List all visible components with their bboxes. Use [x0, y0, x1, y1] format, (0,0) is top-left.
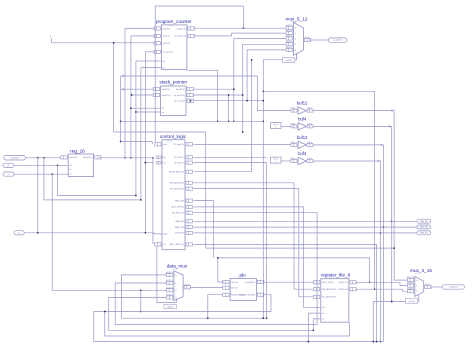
svg-text:o(11:0): o(11:0): [307, 142, 312, 144]
svg-text:FLAGS_OUT(3:0): FLAGS_OUT(3:0): [239, 294, 255, 297]
svg-text:o(15:0): o(15:0): [184, 284, 190, 286]
wire vertical 205 down: [205, 132, 207, 248]
wire extra vertical 228: [228, 94, 230, 122]
svg-text:clk: clk: [7, 165, 9, 167]
wire loop 91 run: [263, 91, 375, 290]
svg-text:o(11:0): o(11:0): [307, 158, 312, 160]
wire regfile rd0 to mux_3_16: [355, 282, 407, 285]
svg-text:RAM_EN: RAM_EN: [175, 220, 184, 223]
wire sp clk row: [130, 107, 161, 109]
wire alu flags in from bottom: [208, 295, 223, 319]
wire buf12a vertical to mux_3_16: [394, 111, 407, 281]
buffer U10 buf12: [291, 101, 313, 115]
junction clk: [57, 164, 59, 166]
control block U3 control_logic: [155, 134, 193, 250]
ALU block U6 alu: [223, 273, 264, 301]
input port i_data_bus(15:0): [4, 156, 26, 160]
wire sp inc row: [190, 100, 264, 102]
svg-text:RD1(15:0): RD1(15:0): [338, 289, 348, 291]
wire sp long bottom: [121, 120, 264, 122]
svg-text:reg_16: reg_16: [70, 148, 85, 153]
svg-text:din(15:0): din(15:0): [69, 157, 77, 159]
buffer U13 buf4: [291, 151, 313, 165]
instance label reg_16: [74, 153, 79, 155]
svg-text:XLXI_5: XLXI_5: [172, 269, 177, 271]
svg-text:mux_5_12: mux_5_12: [286, 17, 308, 22]
wire sp din row: [121, 88, 154, 90]
svg-text:XLXI_2: XLXI_2: [168, 85, 173, 87]
wire bottom bus 5: [94, 341, 384, 343]
wire data_mux d3 feed: [109, 298, 167, 331]
wire to program_counter rst: [140, 68, 142, 201]
register block U2 stack_pointer: [153, 80, 193, 116]
wire sp dout to mux a2: [193, 39, 286, 123]
buffer U11 buf4: [291, 116, 313, 130]
svg-text:clk: clk: [322, 307, 324, 309]
wire pc sp_out to mux a1: [193, 33, 285, 36]
svg-text:d3(15:0): d3(15:0): [166, 295, 173, 297]
instance label stack_pointer: [168, 85, 173, 87]
svg-text:off(11:0): off(11:0): [163, 43, 171, 45]
wire data_mux sel feed: [157, 246, 177, 302]
svg-text:a2(11:0): a2(11:0): [286, 36, 293, 38]
wire control rst row: [145, 162, 154, 164]
wire data_mux d1 feed: [115, 283, 166, 325]
instance label control_logic: [167, 141, 172, 143]
output port o_ram_en: [417, 219, 431, 223]
svg-text:i(11:0): i(11:0): [291, 142, 296, 144]
wire bottom bus 3: [109, 329, 314, 331]
svg-text:flags: flags: [163, 234, 167, 236]
svg-text:RD0(15:0): RD0(15:0): [338, 282, 348, 284]
svg-text:sp_inc(11:0): sp_inc(11:0): [174, 101, 185, 103]
wire buf4a vertical to mux_3 sel: [391, 126, 393, 301]
constant source XLXI_pwr2: [271, 157, 291, 163]
svg-text:RAM_WR: RAM_WR: [175, 226, 184, 229]
svg-text:dout(11:0): dout(11:0): [176, 88, 185, 91]
svg-text:o(15:0): o(15:0): [425, 284, 431, 286]
svg-text:DB_SEL(2:0): DB_SEL(2:0): [172, 213, 184, 215]
wire bottom bus 1: [121, 317, 266, 319]
wire buf4b out: [313, 160, 380, 162]
wire mid run 132: [114, 131, 206, 133]
wire mux_3 sel route: [373, 299, 419, 342]
svg-text:o(11:0): o(11:0): [307, 123, 312, 125]
wire sp inc to mux a4: [247, 50, 286, 101]
svg-text:program_counter: program_counter: [156, 19, 192, 24]
wire regfile en feed: [308, 313, 321, 342]
wire bottom bus 2: [115, 324, 317, 326]
svg-text:i(11:0): i(11:0): [291, 123, 296, 125]
wire regfile rst feed: [312, 319, 320, 331]
wire buf4a out: [313, 125, 392, 127]
wire addr_sel to mux sel: [194, 59, 253, 172]
junction rst: [51, 173, 53, 175]
svg-text:XLXI_9: XLXI_9: [415, 273, 420, 275]
svg-text:XLXI_6: XLXI_6: [238, 277, 243, 279]
wire rd_addr to regfile: [194, 189, 314, 297]
wire buf12a out: [313, 109, 394, 111]
svg-text:ALU_OP(3:0): ALU_OP(3:0): [172, 206, 184, 209]
multiplexer U5 data_mux: [164, 264, 191, 309]
svg-text:XLXI_3: XLXI_3: [167, 141, 172, 143]
svg-text:clk: clk: [163, 61, 165, 63]
svg-text:o_adr(11:0): o_adr(11:0): [333, 40, 343, 42]
buffer U12 buf12: [291, 135, 313, 149]
svg-text:sel(1:0): sel(1:0): [167, 307, 174, 309]
wire bottom bus 4: [105, 323, 350, 336]
wire pc rst row: [141, 67, 162, 69]
sel label overlay mux_3_16: [405, 299, 417, 303]
svg-text:instr: instr: [163, 143, 167, 146]
svg-text:RAM_EN: RAM_EN: [420, 220, 428, 223]
svg-text:RD_ADDR(2:0): RD_ADDR(2:0): [170, 187, 184, 190]
svg-text:a4(11:0): a4(11:0): [286, 47, 293, 49]
wire reg_wr to alu loop: [194, 201, 214, 258]
svg-text:stack_pointer: stack_pointer: [159, 80, 187, 85]
svg-text:a(15:0): a(15:0): [231, 282, 238, 284]
svg-text:clk: clk: [163, 157, 165, 159]
wire vertical from sp bottom net: [120, 76, 122, 142]
svg-text:ADDR_SEL(2:0): ADDR_SEL(2:0): [169, 171, 184, 174]
svg-text:ROM_EN: ROM_EN: [420, 232, 428, 234]
svg-text:o(11:0): o(11:0): [307, 108, 312, 110]
svg-text:buf12: buf12: [297, 101, 308, 106]
wire to program_counter clk: [135, 61, 137, 196]
svg-text:sel(2:0): sel(2:0): [285, 60, 292, 62]
svg-text:en: en: [69, 169, 71, 171]
wire flags port to control_logic: [24, 233, 162, 234]
wire pc_ld row: [194, 156, 267, 158]
svg-text:data_mux: data_mux: [167, 264, 188, 269]
svg-text:WR_D(15:0): WR_D(15:0): [322, 282, 333, 284]
wire faint vertical 113: [113, 42, 115, 132]
svg-text:en: en: [322, 313, 324, 315]
svg-text:SP_ld(1:0): SP_ld(1:0): [174, 162, 184, 164]
wire next_sel bottom: [194, 244, 377, 341]
svg-text:o_dat(15:0): o_dat(15:0): [449, 286, 459, 289]
constant source XLXI_pwr1: [271, 123, 291, 129]
svg-text:pwr_4: pwr_4: [274, 124, 278, 126]
svg-text:d2(15:0): d2(15:0): [166, 287, 173, 289]
wire mux_5_12 output to o_address: [309, 39, 329, 41]
wire mux_3_16 out to port: [430, 286, 442, 288]
wire pc op row: [145, 51, 154, 53]
wire pc clk row: [136, 60, 162, 62]
svg-text:PC_op(2:0): PC_op(2:0): [163, 52, 174, 54]
flip-flop block U1 program_counter: [154, 19, 194, 69]
output port o_address(11:0): [328, 38, 347, 42]
input port clk: [3, 163, 14, 167]
wire sp out to mux a3: [193, 44, 286, 133]
svg-text:pwr_4: pwr_4: [274, 159, 278, 161]
svg-text:a0(11:0): a0(11:0): [286, 25, 293, 27]
svg-text:PC_ld(1:0): PC_ld(1:0): [174, 157, 184, 159]
wire control PCop to buf12b: [194, 144, 292, 146]
wire regfile rd1 to mux_3_16: [355, 289, 407, 291]
svg-text:buf4: buf4: [298, 151, 307, 156]
svg-text:buf4: buf4: [298, 116, 307, 121]
svg-text:i_dat(15:0): i_dat(15:0): [10, 156, 20, 159]
svg-text:XLXI_1: XLXI_1: [168, 25, 173, 27]
junction on data wire: [37, 157, 39, 159]
svg-text:result(15:0): result(15:0): [245, 281, 255, 284]
svg-text:i(11:0): i(11:0): [291, 108, 296, 110]
wire db_sel down: [194, 213, 318, 325]
svg-text:b(15:0): b(15:0): [231, 288, 238, 290]
input port i_flags: [14, 231, 24, 235]
wire clk distribution down: [58, 165, 136, 195]
svg-text:register_file_8: register_file_8: [321, 272, 351, 277]
wire net i_data to reg_16 din: [26, 157, 61, 159]
svg-text:REG_WR: REG_WR: [175, 200, 184, 202]
wire data vertical to flags row: [37, 158, 39, 234]
wire sp_ld row down: [194, 163, 268, 319]
wire branch down from pin2 row: [140, 290, 142, 312]
svg-text:d0(15:0): d0(15:0): [407, 277, 414, 279]
svg-text:dout(15:0): dout(15:0): [83, 156, 92, 159]
svg-text:push(1:0): push(1:0): [162, 95, 171, 97]
wire loop line B: [206, 247, 395, 249]
svg-text:clk: clk: [69, 165, 71, 167]
output port o_rom_en: [417, 231, 431, 235]
multiplexer U8 mux_5_12: [282, 17, 310, 63]
output port o_ram_wr: [417, 225, 431, 229]
wire top loop: [155, 6, 244, 143]
wire pc bottom run: [187, 70, 219, 122]
wire buf4b vertical to bottom: [380, 161, 382, 342]
svg-text:XLXI_4: XLXI_4: [74, 153, 79, 155]
wire pc dout to mux_5_12 a0: [193, 27, 285, 29]
wire rst distribution down: [52, 174, 166, 291]
instance label data_mux: [172, 269, 177, 271]
svg-text:ROM_EN: ROM_EN: [175, 233, 184, 235]
wire instr jog to control: [121, 142, 153, 145]
wire rom_en long: [194, 232, 417, 234]
wire pc din row: [125, 28, 154, 30]
junction on data wire 2: [43, 157, 45, 159]
svg-text:XLXI_8: XLXI_8: [291, 21, 296, 23]
svg-text:RAM_WR: RAM_WR: [420, 226, 429, 229]
instance label mux_5_12: [291, 21, 296, 23]
wire ram_wr long: [194, 226, 417, 228]
wire clk from port: [14, 164, 68, 166]
svg-text:o(11:0): o(11:0): [305, 37, 311, 39]
wire alu flags out: [94, 295, 271, 342]
wire pc off row: [51, 38, 154, 43]
wire data_mux out to alu b: [190, 287, 223, 289]
instance label program_counter: [168, 25, 173, 27]
wire alu result to regfile: [263, 281, 313, 283]
svg-text:mux_3_16: mux_3_16: [410, 268, 432, 273]
svg-text:a1(11:0): a1(11:0): [286, 30, 293, 32]
input port rst: [3, 172, 14, 176]
register block U4 reg_16: [61, 148, 101, 176]
svg-text:NEXT_SEL(1:0): NEXT_SEL(1:0): [169, 244, 184, 246]
instance label alu: [238, 277, 243, 279]
output port o_data_bus(15:0): [442, 285, 464, 289]
svg-text:d1(15:0): d1(15:0): [166, 280, 173, 282]
svg-text:sp_out(11:0): sp_out(11:0): [174, 94, 185, 97]
register file block U7 register_file_8: [313, 272, 356, 322]
instance label register_file: [329, 277, 334, 279]
wire sel feed run: [263, 54, 296, 61]
instance label mux_3_16: [415, 273, 420, 275]
wire alu loop a: [217, 257, 371, 283]
svg-text:RD_ADDR(2:0): RD_ADDR(2:0): [322, 296, 336, 299]
wire bus to program_counter sp: [130, 36, 132, 159]
svg-text:control_logic: control_logic: [160, 134, 187, 139]
wire rst from port: [14, 173, 68, 175]
wire line4 up join: [104, 311, 106, 336]
wire data_mux d0 feed: [121, 275, 166, 318]
svg-text:a3(11:0): a3(11:0): [286, 41, 293, 43]
svg-text:PC_op(2:0): PC_op(2:0): [174, 144, 185, 146]
svg-text:XLXI_7: XLXI_7: [329, 277, 334, 279]
wire buf12b vertical to bottom: [383, 145, 385, 342]
svg-text:i(11:0): i(11:0): [291, 158, 296, 160]
svg-text:WR_ADDR(2:0): WR_ADDR(2:0): [170, 182, 185, 185]
wire reg_16 dout row to control: [99, 157, 153, 159]
tick label: [50, 36, 52, 38]
wire sp rst row: [135, 111, 161, 113]
wire wr_addr to regfile: [194, 183, 314, 289]
svg-text:d0(15:0): d0(15:0): [166, 272, 173, 274]
wire data vertical 2 down: [44, 158, 141, 200]
multiplexer U9 mux_3_16: [405, 268, 432, 303]
wire buf12b out: [313, 144, 384, 146]
svg-text:din(11:0): din(11:0): [163, 28, 171, 30]
wire bus to program_counter din: [124, 29, 126, 159]
wire feed to buf12a: [121, 75, 291, 111]
wire ram_en long: [194, 220, 417, 222]
svg-text:d1(15:0): d1(15:0): [407, 283, 414, 285]
svg-text:din(11:0): din(11:0): [162, 89, 170, 91]
svg-text:d2(15:0): d2(15:0): [407, 288, 414, 290]
svg-text:WR_ADDR(2:0): WR_ADDR(2:0): [322, 288, 337, 291]
svg-text:sel(1:0): sel(1:0): [408, 301, 415, 303]
wire to program_counter op: [145, 52, 147, 234]
svg-text:sp(11:0): sp(11:0): [163, 36, 171, 38]
wire alu_op to regfile clk: [194, 207, 321, 307]
svg-text:buf12: buf12: [297, 135, 308, 140]
svg-text:clk: clk: [162, 108, 164, 110]
svg-text:alu: alu: [239, 273, 246, 278]
sel label overlay mux_5_12: [282, 58, 294, 62]
wire sp push row: [131, 94, 153, 96]
wire long vertical spare: [262, 60, 264, 319]
wire int net vertical: [152, 157, 154, 244]
wire pc sp row: [131, 35, 154, 37]
svg-text:dout(11:0): dout(11:0): [177, 27, 186, 30]
svg-text:sp_out(11:0): sp_out(11:0): [175, 35, 186, 38]
